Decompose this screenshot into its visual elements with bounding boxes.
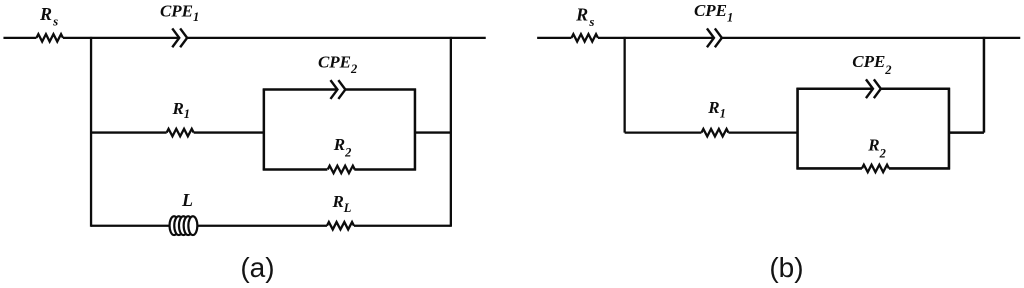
- svg-text:Rs: Rs: [39, 4, 58, 28]
- svg-text:R1: R1: [171, 99, 190, 121]
- wire bottom row left segment (a): [91, 225, 170, 227]
- wire inner box right edge (a): [414, 89, 417, 171]
- wire right vertical branch (a): [450, 37, 452, 227]
- wire inner box to right vertical (b): [949, 131, 984, 134]
- wire R1 row left segment (a): [91, 131, 167, 133]
- resistor R2 (a) zigzag: [328, 166, 355, 173]
- svg-text:R2: R2: [333, 135, 352, 159]
- inductor L (a) coil of 5 loops: [170, 216, 198, 235]
- resistor R1 (b) zigzag: [701, 129, 728, 136]
- wire CPE1 to right end (a): [187, 37, 486, 39]
- op-amp: CPE1 (a) double-chevron symbol: [172, 28, 187, 47]
- resistor RL (a) zigzag: [327, 222, 354, 229]
- wire R1 to inner box (a): [194, 131, 264, 133]
- resistor R1 (a) zigzag: [167, 129, 194, 136]
- wire inner box top edge left of CPE2 (b): [797, 87, 873, 90]
- svg-text:Rs: Rs: [575, 4, 594, 28]
- wire Rs to CPE1 (a): [63, 37, 179, 39]
- svg-text:(b): (b): [769, 252, 803, 283]
- wire left vertical branch (a): [90, 37, 92, 227]
- wire right vertical branch (b): [983, 37, 986, 133]
- wire inner box top edge left of CPE2 (a): [263, 88, 338, 91]
- resistor Rs (a) zigzag: [36, 34, 63, 41]
- wire left vertical branch (b): [624, 37, 626, 133]
- wire CPE1 to right end (b): [722, 37, 1020, 39]
- wire input lead left of Rs (b): [537, 37, 571, 39]
- wire input lead left of Rs: [3, 37, 36, 39]
- wire inner box bottom edge left of R2 (a): [263, 168, 328, 171]
- wire Rs to CPE1 (b): [598, 37, 714, 39]
- wire inner box top edge right of CPE2 (b): [881, 87, 950, 90]
- svg-text:CPE2: CPE2: [852, 52, 891, 77]
- wire inner box bottom edge left of R2 (b): [797, 167, 862, 170]
- wire inner box bottom edge right of R2 (b): [889, 167, 950, 170]
- svg-text:CPE2: CPE2: [318, 53, 357, 76]
- svg-text:RL: RL: [331, 192, 351, 215]
- wire inner box left edge (a): [263, 89, 266, 171]
- svg-text:(a): (a): [240, 252, 274, 283]
- wire inner box bottom edge right of R2 (a): [354, 168, 416, 171]
- wire inner box right edge (b): [948, 88, 951, 170]
- wire inner box left edge (b): [796, 88, 799, 170]
- op-amp: CPE2 (a) double-chevron symbol: [330, 80, 345, 99]
- wire bottom row middle segment (a): [198, 225, 327, 227]
- svg-text:L: L: [181, 190, 193, 210]
- wire R1 row left segment (b): [625, 131, 702, 133]
- svg-text:R2: R2: [867, 135, 886, 160]
- wire inner box top edge right of CPE2 (a): [345, 88, 416, 91]
- resistor R2 (b) zigzag: [862, 165, 889, 172]
- op-amp: CPE1 (b) double-chevron symbol: [707, 28, 722, 47]
- svg-text:CPE1: CPE1: [160, 1, 199, 24]
- wire bottom row right segment (a): [354, 225, 451, 227]
- wire inner box to right vertical (a): [415, 131, 451, 133]
- resistor Rs (b) zigzag: [571, 34, 598, 41]
- svg-text:R1: R1: [707, 98, 726, 121]
- svg-text:CPE1: CPE1: [694, 1, 733, 24]
- wire R1 to inner box (b): [728, 131, 797, 133]
- op-amp: CPE2 (b) double-chevron symbol: [866, 79, 881, 98]
